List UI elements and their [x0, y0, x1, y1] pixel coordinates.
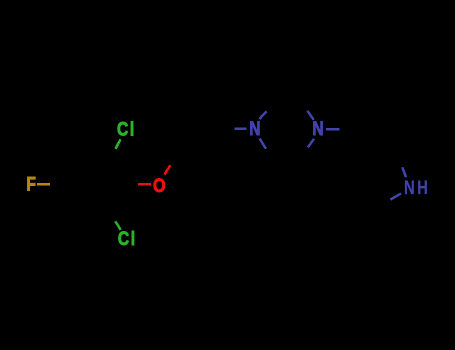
svg-text:N: N — [249, 117, 260, 139]
svg-text:H: H — [417, 176, 428, 199]
svg-text:N: N — [404, 176, 415, 199]
svg-text:Cl: Cl — [117, 118, 136, 140]
svg-text:F: F — [26, 173, 36, 195]
svg-text:Cl: Cl — [118, 227, 137, 249]
svg-text:N: N — [312, 118, 323, 140]
svg-text:O: O — [153, 174, 166, 196]
